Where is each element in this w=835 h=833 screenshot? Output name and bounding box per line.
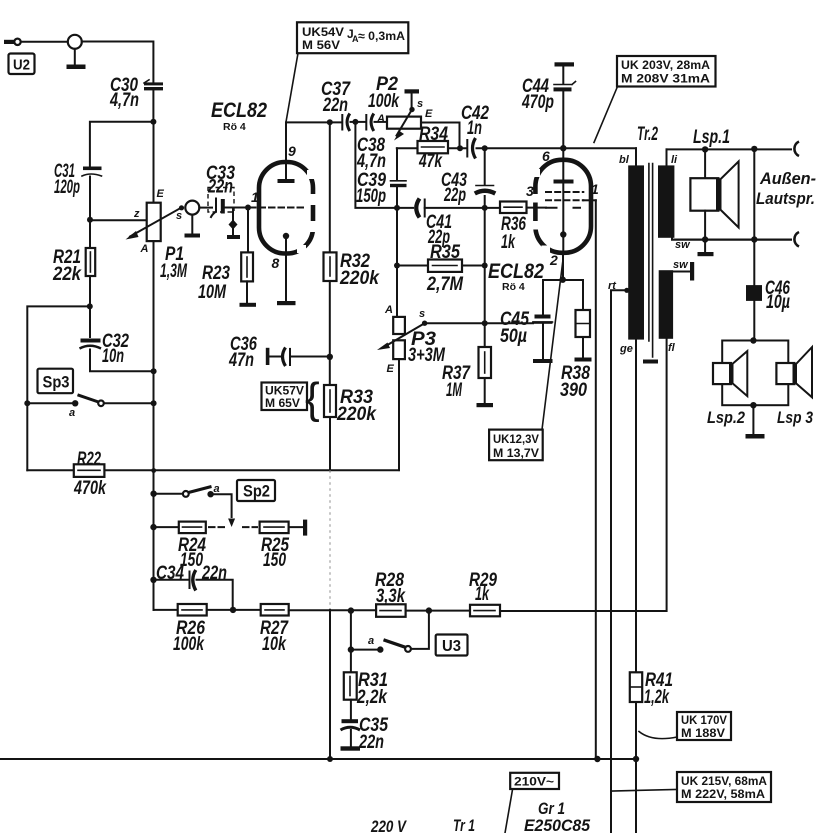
capacitor C33 (211, 199, 216, 218)
switch U3 branch (350, 611, 352, 650)
node ext bottom (751, 236, 757, 242)
node z (C31/R21/P1) (87, 217, 93, 223)
resistor R27 (261, 604, 289, 616)
svg-text:E: E (157, 188, 165, 200)
lower secondary top terminal (673, 271, 690, 273)
resistor R32 rail from pin9 row (329, 122, 331, 385)
wire R38 to chassis (582, 337, 584, 358)
wire Sp3 to main rail (104, 402, 154, 404)
wire P2-E to R34 node (421, 123, 460, 149)
svg-text:Lsp 3: Lsp 3 (777, 408, 813, 427)
bottom row wire (674, 239, 791, 241)
node R28/R29/U3 (426, 607, 432, 613)
svg-text:2,7M: 2,7M (426, 274, 464, 295)
resistor R32 (324, 252, 337, 281)
wire P3 s to R37 node (425, 322, 533, 324)
svg-text:210V~: 210V~ (514, 775, 554, 789)
wire C32 branch from node (89, 306, 91, 337)
wire Sp2 to wiper arrow (211, 494, 232, 517)
svg-text:1: 1 (591, 181, 599, 197)
wire C39 node down to R35 row (396, 208, 398, 317)
grid g3 dashes (546, 207, 580, 209)
switch Sp3 lever (78, 395, 99, 402)
potentiometer P3 lower (393, 340, 405, 359)
wire R31 to C35 (350, 700, 352, 719)
svg-text:ECL82: ECL82 (488, 260, 544, 283)
U2 label box (9, 54, 35, 75)
node C41/C43/R36 (482, 205, 488, 211)
resistor R34 (418, 141, 449, 153)
capacitor C30 (144, 82, 163, 85)
wire cathode node to C45 and R38 (543, 279, 583, 281)
wire z node to P1 (90, 219, 147, 221)
svg-text:22p: 22p (443, 185, 466, 206)
svg-text:≈ 0,3mA: ≈ 0,3mA (358, 29, 405, 43)
node pin6 / C44 (560, 145, 566, 151)
svg-text:10n: 10n (102, 346, 124, 367)
callout box UK170V (677, 712, 731, 740)
svg-text:U2: U2 (13, 57, 30, 74)
wire R41 to bus and below (635, 702, 637, 833)
leader UK203V to pin6 row (594, 87, 618, 143)
svg-text:220k: 220k (336, 404, 377, 425)
svg-text:E250C85: E250C85 (524, 816, 591, 833)
node grid triode (245, 205, 251, 211)
U3 lever (384, 640, 406, 648)
transformer secondary lower bar (659, 270, 673, 339)
svg-text:a: a (368, 635, 374, 647)
wire node down to R23 (247, 208, 249, 253)
capacitor C37 (341, 115, 343, 130)
resistor R38 (582, 280, 584, 310)
callout box UK12,3V (489, 430, 543, 461)
input terminal stub (4, 40, 14, 44)
Sp2 closed contact dot (207, 491, 213, 497)
wire node left and down left rail (27, 306, 90, 470)
leader UK215V to rt rail (612, 790, 677, 792)
U3 closed contact dot (377, 646, 383, 652)
resistor R41 (635, 340, 637, 673)
resistor R24 (154, 526, 179, 528)
R25 right terminal (289, 526, 303, 528)
node C34 row (150, 577, 156, 583)
svg-text:470k: 470k (73, 478, 107, 499)
jack chassis bar (185, 234, 201, 238)
node Lsp1 bottom (702, 236, 708, 242)
svg-text:Rö 4: Rö 4 (223, 121, 246, 133)
wire R27 to R28 node (289, 609, 376, 611)
svg-text:rt: rt (608, 280, 617, 292)
svg-text:R34: R34 (419, 124, 448, 145)
svg-text:3+3M: 3+3M (408, 345, 446, 366)
box 210V~ (510, 773, 559, 789)
svg-text:1,2k: 1,2k (644, 687, 670, 708)
capacitor C39 (396, 148, 398, 208)
callout box UK54V (297, 22, 408, 53)
Sp2 lever (189, 487, 212, 493)
capacitor C34 (154, 579, 189, 581)
wire to Sp2 open contact (154, 493, 183, 495)
jack chassis stem (191, 215, 193, 234)
wire C34 to R26/R27 node (197, 580, 233, 610)
wire pin9 node to C37 row (286, 122, 341, 162)
dashed box around C33 (208, 188, 234, 213)
wire C42 to pin6 row (477, 147, 564, 149)
chassis bar pin8 (277, 301, 296, 305)
capacitor C43 (476, 185, 494, 187)
switch Sp3 pivot contact (72, 400, 78, 406)
node R35 right (482, 263, 488, 269)
P3 wiper arrow (384, 323, 425, 347)
svg-text:10k: 10k (262, 634, 287, 655)
svg-text:22n: 22n (207, 177, 233, 198)
svg-text:UK 170V: UK 170V (681, 715, 727, 727)
tube V2 pentode ECL82 envelope (535, 160, 591, 253)
Sp2 label box (237, 480, 275, 501)
svg-text:220 V: 220 V (370, 817, 407, 833)
svg-text:Lautspr.: Lautspr. (756, 189, 815, 208)
jack ground stem (74, 49, 76, 65)
capacitor C46 electrolytic (746, 285, 762, 301)
wire jack to C33 (199, 207, 212, 209)
faint rail R33 to R27 row (329, 470, 331, 610)
svg-text:E: E (387, 363, 395, 375)
svg-text:Rö 4: Rö 4 (502, 281, 525, 293)
wire C43 branch (484, 148, 486, 208)
resistor R21 (86, 248, 96, 276)
resistor R37 (484, 323, 486, 347)
svg-text:M 65V: M 65V (265, 398, 300, 410)
svg-text:220k: 220k (339, 268, 380, 289)
jack ground bar (67, 65, 86, 70)
svg-text:li: li (671, 154, 678, 166)
transformer core lines (648, 164, 650, 342)
capacitor C38 (365, 115, 367, 130)
main rail P1 down to R26 row (153, 122, 155, 610)
wire jack to C30 corner (82, 42, 154, 83)
wire z node down to R21 (89, 220, 91, 248)
svg-text:1,3M: 1,3M (160, 261, 188, 282)
node C32 row / main rail (151, 368, 157, 374)
triode anode (285, 123, 287, 179)
wire C32 to Sp3 upper row (90, 350, 154, 372)
terminal arc bottom (794, 232, 799, 247)
wire R33 down to R22 row crossing (329, 417, 331, 470)
svg-text:4,7n: 4,7n (109, 90, 139, 111)
resistor R36 (485, 207, 546, 209)
node C36 / R32 rail (327, 354, 333, 360)
svg-text:2,2k: 2,2k (356, 687, 388, 708)
node R24 row (150, 524, 156, 530)
svg-text:s: s (417, 98, 423, 110)
potentiometer P1 (147, 203, 161, 241)
wire secondary top to Lsp1 row (667, 148, 792, 150)
resistor R22 (27, 469, 397, 471)
svg-text:150p: 150p (356, 186, 386, 207)
svg-text:A: A (384, 304, 393, 316)
svg-text:22k: 22k (52, 264, 82, 285)
wire C45 to chassis (542, 324, 544, 359)
wire node to R27 (207, 609, 261, 611)
triode cathode (285, 236, 287, 254)
pentode center electrode line (562, 184, 564, 253)
Sp3 label box (38, 369, 74, 394)
svg-text:M 222V, 58mA: M 222V, 58mA (681, 787, 765, 801)
node Lsp1 top (702, 146, 708, 152)
switch Sp3 open contact (98, 401, 104, 407)
resistor R26 (178, 604, 207, 616)
svg-text:Sp2: Sp2 (243, 482, 270, 501)
P1 wiper arrow (130, 208, 181, 237)
svg-text:Außen-: Außen- (759, 169, 816, 188)
pin1 rail down to bus (595, 200, 597, 759)
svg-text:fl: fl (668, 342, 676, 354)
svg-text:50µ: 50µ (500, 326, 527, 347)
wire C46 to Lsp2/3 loop (753, 301, 755, 341)
svg-text:ECL82: ECL82 (211, 99, 267, 122)
U3 label box (436, 635, 468, 656)
transformer primary winding bar (635, 148, 637, 165)
transformer secondary upper bar (666, 149, 668, 165)
svg-text:Lsp.2: Lsp.2 (707, 408, 745, 427)
lower secondary to R29 feedback rail (500, 339, 667, 611)
speaker Lsp3 (776, 363, 794, 384)
svg-text:{: { (305, 374, 320, 423)
svg-text:4,7n: 4,7n (356, 151, 386, 172)
wire C42 node down R35/R37 rail (484, 208, 486, 323)
R26 row from rail (154, 609, 178, 611)
svg-text:1k: 1k (475, 584, 490, 605)
callout box UK57V (262, 383, 308, 411)
switch Sp2 node on rail (150, 491, 156, 497)
input open-circle terminal (14, 39, 20, 45)
resistor R28 (376, 604, 406, 617)
wire R23 to chassis (246, 281, 248, 302)
pentode anode (562, 148, 564, 179)
capacitor C41 (397, 207, 413, 209)
Tr1 winding slant line (505, 789, 513, 833)
node R35 left (394, 263, 400, 269)
triode grid dashes (250, 207, 303, 209)
svg-text:M 188V: M 188V (681, 728, 725, 740)
svg-text:UK 215V, 68mA: UK 215V, 68mA (681, 774, 767, 788)
potentiometer P3 upper (393, 317, 405, 334)
callout box UK203V (617, 56, 716, 87)
svg-text:10M: 10M (198, 282, 227, 303)
svg-text:390: 390 (560, 380, 587, 401)
core chassis bar (643, 360, 658, 364)
chassis bar R23 (240, 303, 257, 307)
svg-text:UK 203V, 28mA: UK 203V, 28mA (621, 58, 710, 72)
primary rt tap (624, 288, 629, 293)
node pin9 row / R32 rail (327, 119, 333, 125)
wire R21 to corner node (89, 276, 91, 306)
wire node down to C41 row (355, 122, 397, 208)
wire ext rail down to C46 (753, 149, 755, 285)
svg-text:sw: sw (673, 259, 689, 271)
bottom bus (0, 758, 636, 760)
node R37 top (482, 320, 488, 326)
wire pin6 row to primary (563, 147, 636, 149)
svg-text:100k: 100k (368, 91, 400, 112)
node R34/C42/E (457, 145, 463, 151)
wire P3-E down to R22 row (398, 359, 400, 470)
node R22 row / main rail (151, 468, 156, 473)
rail R27 row to bottom bus (329, 610, 331, 759)
Lsp2/Lsp3 loop (722, 341, 788, 406)
capacitor C31 (83, 167, 102, 171)
svg-text:1: 1 (251, 189, 259, 205)
svg-text:sw: sw (675, 239, 691, 251)
svg-text:U3: U3 (442, 638, 461, 655)
dashed link R24-R25 (209, 526, 224, 528)
svg-text:s: s (176, 210, 182, 222)
svg-text:47n: 47n (228, 350, 254, 371)
svg-text:22n: 22n (358, 732, 384, 753)
callout box UK215V (677, 772, 771, 802)
svg-text:120p: 120p (54, 177, 80, 198)
svg-text:A: A (140, 243, 149, 255)
node C39/C41 row (394, 205, 400, 211)
resistor R31 (350, 650, 352, 673)
grid g1 dashes with pin1 exit (546, 199, 583, 201)
node Sp3/main rail (151, 400, 157, 406)
wire to Sp3 pivot (27, 402, 75, 404)
wire C30 to node (152, 90, 154, 121)
svg-text:Lsp.1: Lsp.1 (693, 127, 730, 148)
wire R28 to node (406, 610, 470, 612)
capacitor C36 (266, 348, 270, 365)
wire pin8 to chassis (285, 254, 287, 302)
secondary upper sw wire (672, 238, 791, 240)
wire C31 to node z (89, 177, 91, 220)
wire input to jack (21, 41, 68, 43)
resistor R29 (470, 605, 500, 617)
svg-text:R35: R35 (430, 242, 460, 263)
wire C35 to chassis (350, 730, 352, 746)
capacitor C44 (555, 62, 575, 66)
capacitor C42 (466, 140, 468, 157)
capacitor C45 (535, 315, 551, 319)
leader UK12,3V to pin2 (542, 262, 563, 430)
capacitor C35 (342, 719, 359, 723)
node R27/R28/U3 (348, 607, 354, 613)
ground Lsp1 (704, 240, 706, 253)
capacitor C32 (81, 339, 101, 343)
svg-text:z: z (133, 208, 140, 220)
node C37/C38 (352, 119, 358, 125)
jack circle after P1 (185, 201, 199, 215)
resistor R33 (324, 385, 336, 417)
svg-text:M 56V: M 56V (302, 38, 340, 52)
svg-text:ge: ge (619, 343, 633, 355)
resistor R23 (241, 252, 253, 281)
wire node to C31 (90, 122, 153, 166)
svg-text:9: 9 (288, 143, 296, 159)
svg-text:UK12,3V: UK12,3V (493, 434, 539, 446)
wire R34 row (397, 147, 467, 149)
resistor R25 (260, 522, 289, 534)
svg-text:R23: R23 (202, 263, 230, 284)
svg-text:UK54V: UK54V (302, 25, 344, 39)
switch Sp3 row: left node (24, 400, 30, 406)
svg-text:R22: R22 (77, 449, 101, 470)
pentode cathode dot (560, 231, 566, 237)
svg-text:470p: 470p (521, 92, 554, 113)
chassis stem with dot (232, 208, 234, 236)
resistor R35 (397, 265, 485, 267)
svg-text:6: 6 (542, 148, 550, 164)
svg-text:s: s (419, 308, 425, 320)
wire C33 to grid node (225, 207, 248, 209)
svg-text:a: a (69, 407, 75, 419)
svg-text:1n: 1n (467, 118, 482, 139)
svg-text:Sp3: Sp3 (43, 373, 70, 392)
svg-text:M 13,7V: M 13,7V (493, 448, 539, 460)
svg-text:M 208V 31mA: M 208V 31mA (621, 72, 710, 86)
wire R37 to chassis (484, 378, 486, 403)
svg-text:47k: 47k (418, 151, 443, 172)
svg-text:bl: bl (619, 154, 630, 166)
svg-text:150: 150 (263, 550, 286, 571)
svg-text:A: A (376, 113, 385, 125)
svg-text:3,3k: 3,3k (376, 586, 406, 607)
leader UK170V to ge rail (639, 732, 677, 739)
Sp2 open contact (183, 491, 189, 497)
svg-text:UK57V: UK57V (265, 386, 304, 398)
grid g2 dashes (546, 191, 583, 193)
P2 wiper arrow (397, 110, 413, 136)
node C30/C31/P1 (150, 119, 156, 125)
jack circle U2 input (68, 35, 82, 49)
node ext-speaker top (751, 146, 757, 152)
svg-text:3: 3 (526, 183, 534, 199)
svg-text:22n: 22n (201, 563, 227, 584)
node R26/R27/C34 (230, 607, 236, 613)
svg-text:Tr 1: Tr 1 (453, 816, 475, 833)
node R21/Sp3 branch (87, 303, 93, 309)
svg-text:C34: C34 (156, 563, 184, 584)
wire pin2 to cathode node (562, 253, 564, 280)
ground Lsp2/3 (752, 405, 754, 434)
wire C37 to C38 node (351, 121, 365, 123)
speaker Lsp2 (713, 363, 731, 384)
wire U3 to R29 node (411, 611, 429, 649)
terminal arc top (794, 142, 799, 157)
svg-text:E: E (425, 108, 433, 120)
U3 open contact (405, 646, 411, 652)
potentiometer P2 (387, 117, 421, 129)
svg-text:100k: 100k (173, 634, 205, 655)
wire C38 to P2 (375, 121, 388, 123)
speaker Lsp1 (704, 149, 706, 178)
svg-text:1k: 1k (501, 232, 516, 253)
svg-text:1M: 1M (446, 380, 463, 401)
svg-text:Tr.2: Tr.2 (637, 124, 658, 145)
svg-text:2: 2 (549, 252, 558, 268)
svg-text:22n: 22n (322, 95, 348, 116)
tube V1 triode ECL82 envelope (259, 162, 313, 254)
P2 s-terminal stem (411, 94, 413, 108)
svg-text:8: 8 (272, 255, 280, 271)
svg-text:10µ: 10µ (766, 292, 790, 313)
node C42/C43 (482, 145, 488, 151)
leader UK54V to pin9 (286, 53, 298, 122)
